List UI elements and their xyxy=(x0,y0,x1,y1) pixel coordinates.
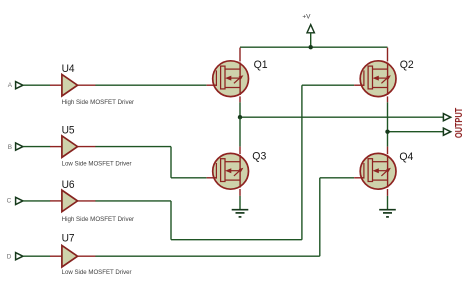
wire U6 down leg xyxy=(170,201,172,240)
svg-text:OUTPUT: OUTPUT xyxy=(454,107,465,138)
power +V symbol xyxy=(307,25,314,33)
wire B to U5 xyxy=(23,146,50,148)
Q1 drain pin xyxy=(239,48,241,62)
wire +V to rail xyxy=(310,33,312,47)
wire U6 east xyxy=(95,200,171,202)
wire to Q3 gate xyxy=(171,177,207,179)
wire Q3 source to ground xyxy=(239,196,241,210)
wire U5 east xyxy=(95,146,171,148)
input terminal B xyxy=(16,143,23,150)
wire U6 up leg xyxy=(301,85,303,240)
Q3 source pin xyxy=(239,189,241,196)
svg-text:Q4: Q4 xyxy=(399,151,413,163)
buffer U5 xyxy=(50,136,96,158)
svg-text:U5: U5 xyxy=(62,125,75,137)
wire Q4 source to ground xyxy=(387,196,389,210)
input terminal D xyxy=(16,253,23,260)
buffer U7 xyxy=(50,245,96,267)
svg-text:U7: U7 xyxy=(62,233,75,245)
Q2 drain pin xyxy=(387,48,389,62)
svg-text:C: C xyxy=(7,198,12,205)
wire Q3 drain from node 1 xyxy=(239,117,241,146)
input terminal C xyxy=(16,197,23,204)
svg-text:Low Side MOSFET Driver: Low Side MOSFET Driver xyxy=(62,269,133,276)
svg-text:Q1: Q1 xyxy=(254,59,268,71)
svg-text:Q3: Q3 xyxy=(252,151,266,163)
svg-text:U6: U6 xyxy=(62,179,75,191)
wire output node 2 xyxy=(388,131,444,133)
junction +V rail xyxy=(309,45,313,49)
transistor Q4 xyxy=(354,153,396,189)
wire output node 1 xyxy=(240,116,443,118)
wire Q2 source to Q4 drain xyxy=(387,102,389,146)
output terminal 2 xyxy=(443,128,450,135)
wire to Q4 gate xyxy=(320,177,354,179)
svg-text:High Side MOSFET Driver: High Side MOSFET Driver xyxy=(62,216,135,223)
wire +V rail xyxy=(240,46,388,48)
wire to Q2 gate xyxy=(302,84,354,86)
wire C to U6 xyxy=(23,200,50,202)
svg-text:High Side MOSFET Driver: High Side MOSFET Driver xyxy=(62,99,135,106)
svg-text:U4: U4 xyxy=(62,63,75,75)
wire U6 south run xyxy=(171,239,302,241)
svg-text:Q2: Q2 xyxy=(400,59,414,71)
wire Q1 source to node xyxy=(239,102,241,117)
svg-text:D: D xyxy=(7,254,12,261)
wire U7 up leg xyxy=(319,178,321,256)
Q4 drain pin xyxy=(387,147,389,155)
transistor Q2 xyxy=(354,61,396,97)
ground below Q4 xyxy=(379,210,396,217)
wire U4 to Q1 gate xyxy=(95,84,206,86)
Q1 source pin xyxy=(239,96,241,102)
wire U7 east run xyxy=(95,255,319,257)
wire A to U4 xyxy=(23,84,50,86)
Q4 source pin xyxy=(387,189,389,196)
svg-text:+V: +V xyxy=(302,13,311,20)
output terminal 1 xyxy=(443,114,450,121)
svg-text:A: A xyxy=(8,82,13,89)
ground below Q3 xyxy=(232,210,249,217)
junction node 1 xyxy=(238,115,242,119)
junction node 2 xyxy=(385,130,389,134)
Q2 source pin xyxy=(387,96,389,102)
transistor Q3 xyxy=(207,153,249,189)
transistor Q1 xyxy=(207,61,249,97)
input terminal A xyxy=(16,82,23,89)
buffer U6 xyxy=(50,190,96,212)
Q3 drain pin xyxy=(239,147,241,155)
wire U5 down leg xyxy=(170,147,172,178)
wire D to U7 xyxy=(23,255,50,257)
buffer U4 xyxy=(50,74,96,96)
svg-text:B: B xyxy=(8,144,12,151)
svg-text:Low Side MOSFET Driver: Low Side MOSFET Driver xyxy=(62,161,133,168)
